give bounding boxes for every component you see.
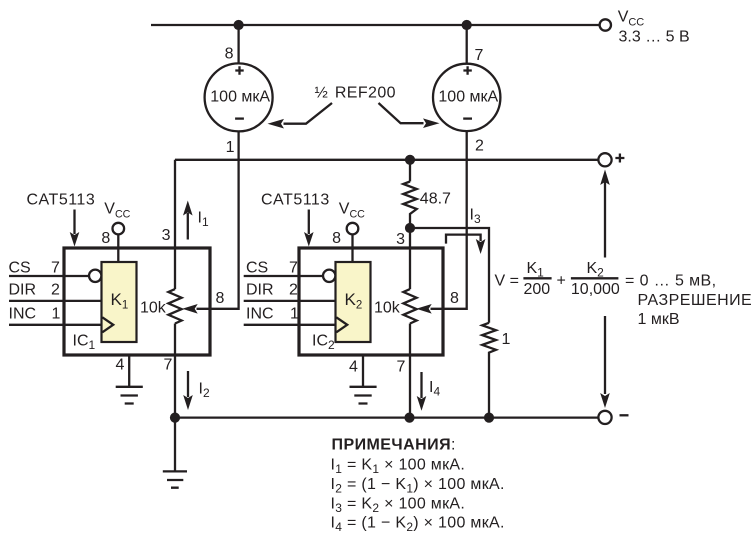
svg-text:8: 8 [216, 290, 225, 307]
wire output plus node line [175, 159, 598, 161]
arrowhead left pointer [268, 119, 285, 129]
ground IC2 [350, 387, 377, 404]
svg-text:INC: INC [246, 305, 274, 322]
terminal Vcc IC2 [347, 223, 359, 235]
wire bottom rail [175, 416, 598, 418]
wire pin 4 IC2 to ground [362, 355, 364, 386]
svg-text:8: 8 [225, 46, 234, 63]
clock chevron IC1 [102, 317, 113, 332]
svg-text:200: 200 [524, 281, 551, 298]
resistor 48.7 [409, 160, 411, 182]
node junction pin 3 IC2 [405, 223, 415, 233]
svg-text:CAT5113: CAT5113 [27, 192, 96, 209]
svg-text:3: 3 [162, 227, 171, 244]
terminal plus [598, 153, 611, 166]
arrow CAT5113 IC1 pointer [73, 210, 75, 235]
svg-text:2: 2 [289, 282, 298, 299]
node junction 48.7 top [405, 155, 415, 165]
wire pot 2 bottom pin 7 to bottom rail [409, 324, 411, 418]
ground IC1 [116, 387, 143, 404]
svg-text:2: 2 [51, 282, 60, 299]
node junction bottom mid [404, 413, 414, 423]
minus sign [620, 414, 629, 416]
svg-text:INC: INC [9, 305, 37, 322]
resistor pot 1 10k [168, 289, 181, 323]
svg-text:7: 7 [164, 357, 173, 374]
wire top Vcc rail [151, 24, 600, 26]
node junction top rail left [234, 20, 244, 30]
wire source 2 output, pin 2, down to wiper [431, 131, 467, 309]
svg-text:100 мкА: 100 мкА [438, 89, 498, 106]
IC1 body CAT5113 [64, 248, 210, 355]
arrow I1 [187, 213, 189, 240]
wire pin 4 IC1 to ground [128, 355, 130, 386]
clock chevron IC2 [336, 317, 347, 332]
arrow I2 [187, 371, 189, 397]
svg-text:8: 8 [332, 230, 341, 247]
svg-text:8: 8 [101, 230, 110, 247]
arrow CAT5113 IC2 pointer [308, 210, 310, 235]
arrow I3 bent [446, 235, 481, 244]
resistor pot 2 10k [403, 289, 416, 323]
svg-text:I2 = (1 − K1) × 100 мкА.: I2 = (1 − K1) × 100 мкА. [331, 476, 505, 496]
svg-text:7: 7 [51, 259, 60, 276]
svg-text:8: 8 [450, 290, 459, 307]
resistor 1 ohm [482, 323, 496, 418]
current source U2 [433, 64, 500, 131]
current source U1 [205, 63, 273, 131]
svg-text:V =: V = [495, 272, 519, 289]
wire junction to 1 ohm branch [410, 228, 489, 323]
svg-text:CAT5113: CAT5113 [261, 192, 330, 209]
IC2 body CAT5113 [299, 248, 443, 355]
svg-text:1: 1 [52, 305, 61, 322]
svg-text:I4 = (1 − K2) × 100 мкА.: I4 = (1 − K2) × 100 мкА. [331, 515, 505, 535]
node junction bottom right [484, 413, 494, 423]
wire source 1 output, pin 1, down to wiper [197, 131, 239, 308]
svg-text:РАЗРЕШЕНИЕ: РАЗРЕШЕНИЕ [638, 292, 753, 309]
svg-text:I1 = K1 × 100 мкА.: I1 = K1 × 100 мкА. [331, 457, 466, 477]
K1 control block [102, 262, 137, 342]
wire REF200 pointer right [379, 103, 424, 123]
svg-text:4: 4 [116, 357, 125, 374]
terminal Vcc [600, 19, 611, 30]
svg-text:3.3 … 5 В: 3.3 … 5 В [619, 29, 690, 46]
svg-text:2: 2 [475, 138, 484, 155]
svg-text:I3 = K2 × 100 мкА.: I3 = K2 × 100 мкА. [331, 495, 466, 515]
svg-text:7: 7 [289, 259, 298, 276]
wire Vcc IC2 to K2 block [351, 234, 353, 262]
svg-text:DIR: DIR [9, 282, 37, 299]
svg-text:ПРИМЕЧАНИЯ:: ПРИМЕЧАНИЯ: [332, 436, 456, 453]
svg-text:100 мкА: 100 мкА [210, 89, 270, 106]
node junction bottom left [170, 413, 180, 423]
terminal minus [598, 411, 611, 424]
wiper arrowhead pot 2 [416, 304, 432, 314]
svg-text:+: + [557, 272, 566, 289]
wire REF200 pointer left [284, 103, 333, 124]
svg-text:CS: CS [9, 259, 31, 276]
wire pot 1 bottom pin 7 to bottom rail [174, 324, 176, 418]
svg-text:1: 1 [502, 331, 511, 348]
svg-text:1 мкВ: 1 мкВ [638, 311, 680, 328]
wire pin 3 junction down to pot 2 [409, 228, 411, 289]
svg-text:1: 1 [226, 139, 235, 156]
arrowhead right pointer [423, 118, 440, 128]
terminal Vcc IC1 [113, 223, 125, 235]
svg-text:7: 7 [475, 47, 484, 64]
svg-text:½ REF200: ½ REF200 [315, 85, 396, 102]
wire rail to source 2, pin 7 [466, 25, 468, 64]
wire rail to source 1, pin 8 [237, 25, 239, 63]
svg-text:48.7: 48.7 [420, 191, 451, 208]
wire output sense lower with down arrow [604, 316, 606, 394]
svg-text:CS: CS [246, 259, 268, 276]
ground main [163, 471, 187, 487]
wire node line down to pot 1 pin 3 [174, 160, 176, 289]
node junction top rail right [462, 20, 472, 30]
svg-text:10k: 10k [140, 300, 167, 317]
wire output sense upper with up arrow [604, 182, 606, 258]
svg-text:10k: 10k [374, 300, 401, 317]
svg-text:7: 7 [397, 359, 406, 376]
wire bottom rail to main ground [174, 418, 176, 472]
svg-text:= 0 … 5 мВ,: = 0 … 5 мВ, [625, 272, 716, 289]
svg-text:DIR: DIR [246, 282, 274, 299]
plus sign [615, 154, 624, 163]
arrow I4 [420, 372, 422, 398]
svg-text:1: 1 [290, 305, 299, 322]
svg-text:10,000: 10,000 [571, 281, 620, 298]
svg-text:4: 4 [349, 359, 358, 376]
K2 control block [336, 262, 371, 342]
svg-text:3: 3 [396, 231, 405, 248]
wiper arrowhead pot 1 [182, 304, 198, 314]
wire Vcc IC1 to K1 block [117, 234, 119, 262]
